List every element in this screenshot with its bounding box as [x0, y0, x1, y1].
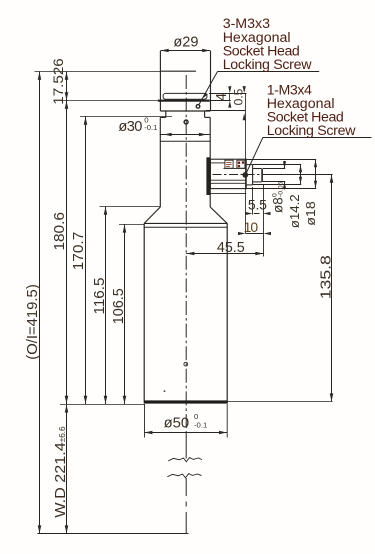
narrow band [160, 111, 210, 117]
dimension ø50 [145, 404, 228, 438]
svg-text:170.7: 170.7 [71, 232, 87, 271]
extension line port center to 135.8 dim [264, 174, 333, 176]
marking box 2 on barrel [237, 160, 245, 168]
dimension ø14.2 [253, 165, 302, 185]
text W.D 221.4 ±6.6 rotated [53, 426, 69, 518]
bottom face thick band [144, 400, 228, 403]
side port flange bar [206, 157, 210, 195]
break line squiggle 1 [168, 458, 202, 462]
dimension 180.6 [65, 101, 69, 405]
svg-text:(O/I=419.5): (O/I=419.5) [25, 284, 41, 360]
extension bottom reference right [227, 401, 332, 403]
svg-text:ø50: ø50 [164, 415, 190, 431]
port tip ø8 [253, 169, 263, 182]
svg-text:Locking Screw: Locking Screw [223, 57, 313, 73]
text ø8 with tolerance rotated [271, 181, 286, 213]
svg-text:45.5: 45.5 [217, 240, 245, 256]
text 0.5 rotated [232, 88, 246, 105]
text 135.8 rotated [318, 255, 335, 299]
svg-text:0.5: 0.5 [232, 88, 246, 105]
dimension ø29 [160, 49, 210, 53]
thick seat line under plate [158, 100, 210, 102]
port step ø14.2 [246, 165, 252, 185]
dimension 170.7 [84, 117, 88, 405]
dimension ø30 [160, 133, 210, 137]
ø50 body [144, 223, 227, 400]
text 170.7 rotated [71, 232, 87, 271]
text layer [25, 16, 356, 518]
extension bottom reference left [60, 404, 144, 406]
dimension ø8 [263, 161, 286, 190]
leader 3-M3x3 [199, 72, 319, 105]
small ring on centerline [184, 362, 188, 366]
text ø30 with tolerance [118, 115, 157, 134]
dimension 4 and 0.5 cluster [206, 86, 247, 233]
break line squiggle 2 [167, 474, 201, 478]
svg-text:ø8: ø8 [271, 197, 286, 213]
text 4 rotated [214, 93, 230, 101]
svg-text:135.8: 135.8 [318, 255, 335, 299]
svg-text:ø18: ø18 [303, 201, 318, 226]
speck on body [164, 390, 166, 392]
dimension 45.5 [186, 185, 263, 257]
svg-text:17.526: 17.526 [50, 58, 66, 105]
svg-text:ø30: ø30 [118, 119, 142, 135]
svg-text:ø14.2: ø14.2 [288, 194, 302, 228]
svg-text:116.5: 116.5 [92, 278, 108, 315]
W.D bottom reference line [37, 533, 188, 535]
dimension 116.5 [104, 207, 108, 405]
dimension W.D 221.4 [65, 405, 69, 534]
text 45.5 [217, 240, 245, 256]
svg-text:±6.6: ±6.6 [58, 426, 67, 442]
text (O/I=419.5) rotated [25, 284, 41, 360]
dimension O/I=419.5 [38, 72, 42, 534]
svg-text:180.6: 180.6 [52, 212, 68, 251]
dimension 106.5 [123, 224, 127, 404]
dimension 5.5 [245, 187, 270, 215]
screw ring on flange [196, 105, 200, 109]
extension 106.5 top [119, 223, 144, 225]
text 106.5 rotated [111, 288, 127, 324]
dimension 17.526 [65, 72, 69, 101]
svg-text:106.5: 106.5 [111, 288, 127, 324]
flange band [160, 110, 210, 112]
extension 116.5 top [100, 206, 161, 208]
text 116.5 rotated [92, 278, 108, 315]
dimension 135.8 [330, 175, 334, 402]
cone taper [144, 207, 227, 227]
text ø50 with tolerance [164, 412, 208, 432]
extension 170.7 top [80, 116, 172, 118]
side port barrel ø18 [210, 159, 246, 193]
svg-text:-0.05: -0.05 [278, 181, 285, 197]
svg-text:4: 4 [214, 93, 230, 101]
top cylinder ø29 body [160, 51, 210, 111]
text ø29 [173, 35, 198, 51]
text ø14.2 rotated [288, 194, 302, 228]
svg-text:-0.1: -0.1 [194, 420, 207, 429]
label 1-M3x4 hexagonal socket head locking screw [267, 83, 357, 140]
port centerline [213, 174, 265, 176]
extension top face left [35, 71, 161, 73]
retaining plate (thin disc) [163, 93, 207, 99]
svg-text:ø29: ø29 [173, 35, 198, 51]
svg-text:5.5: 5.5 [248, 197, 267, 213]
svg-text:W.D 221.4: W.D 221.4 [53, 442, 69, 518]
text 17.526 rotated [50, 58, 66, 105]
leader 1-M3x4 [242, 137, 371, 178]
svg-text:-0.1: -0.1 [144, 123, 157, 132]
label 3-M3x3 hexagonal socket head locking screw [223, 16, 313, 73]
screw ring on tube top [184, 120, 188, 124]
extension 17.526 bottom [62, 100, 158, 102]
svg-text:10: 10 [244, 219, 259, 235]
svg-text:Locking Screw: Locking Screw [267, 123, 357, 139]
text 180.6 rotated [52, 212, 68, 251]
dimension ø18 [246, 160, 317, 189]
dimension 10 [238, 232, 271, 235]
text ø18 rotated [303, 201, 318, 226]
text 5.5 [248, 197, 267, 213]
centerline main vertical [185, 75, 187, 534]
text 10 [244, 219, 259, 235]
marking box 1 on barrel [225, 160, 233, 168]
ø30 tube body [160, 117, 210, 207]
